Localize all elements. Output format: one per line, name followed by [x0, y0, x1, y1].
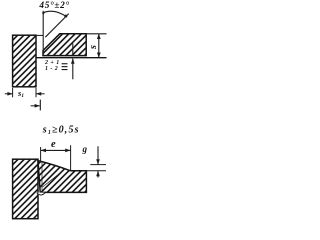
tolerance text extra marks: [62, 63, 68, 70]
weld bead + horizontal plate (welded joint), hatched section: [38, 161, 86, 193]
svg-text:45°±2°: 45°±2°: [38, 0, 69, 11]
g dimension (weld reinforcement height): [86, 146, 106, 177]
left vertical plate, hatched section: [13, 159, 38, 219]
fusion line: bevel edge inside weld: [43, 171, 64, 187]
angle dimension arc with arrowheads: [42, 11, 67, 17]
weld root bead bump: [37, 193, 46, 195]
svg-text:s: s: [88, 45, 99, 50]
s dimension (plate thickness, right side, vertical with arrows): [97, 34, 101, 58]
lower extension line (plate top level): [86, 170, 106, 172]
top edge extension line for s dimension: [86, 33, 106, 35]
root gap dimension: stacked tolerance text: [44, 60, 62, 72]
down arrow: [97, 146, 99, 164]
root gap dimension leader arrow pointing up at lower line: [71, 44, 75, 80]
e dimension (weld width): [41, 145, 71, 171]
dimension line with outside arrows: [5, 93, 13, 95]
fusion line: plate end face inside weld: [41, 162, 43, 193]
horizontal plate (thickness s) with beveled left end, hatched section: [43, 34, 86, 56]
extension line left: [12, 88, 14, 97]
svg-text:e: e: [51, 139, 56, 150]
svg-text:g: g: [82, 144, 88, 154]
bevel angle reference: 45deg slant extension line: [45, 14, 69, 38]
bevel angle reference: vertical line (plate end face extended up): [42, 11, 44, 56]
left extension line: [40, 147, 42, 161]
right extension line: [70, 145, 72, 171]
lower horizontal line (bottom reference / extension line): [36, 57, 107, 59]
dimension line: [41, 149, 71, 151]
upper extension line (bead top level): [90, 164, 106, 166]
left vertical plate (thickness s1), hatched section: [13, 35, 36, 87]
s1 dimension under left plate: [5, 88, 45, 97]
svg-text:1-2: 1-2: [45, 66, 60, 72]
top edge tick between plates: [36, 34, 43, 36]
extension line right: [35, 88, 37, 97]
small leader arrow and bar below s1 dimension: [31, 100, 41, 111]
up arrow: [97, 171, 99, 178]
svg-text:s1≥0,5s: s1≥0,5s: [42, 124, 80, 135]
